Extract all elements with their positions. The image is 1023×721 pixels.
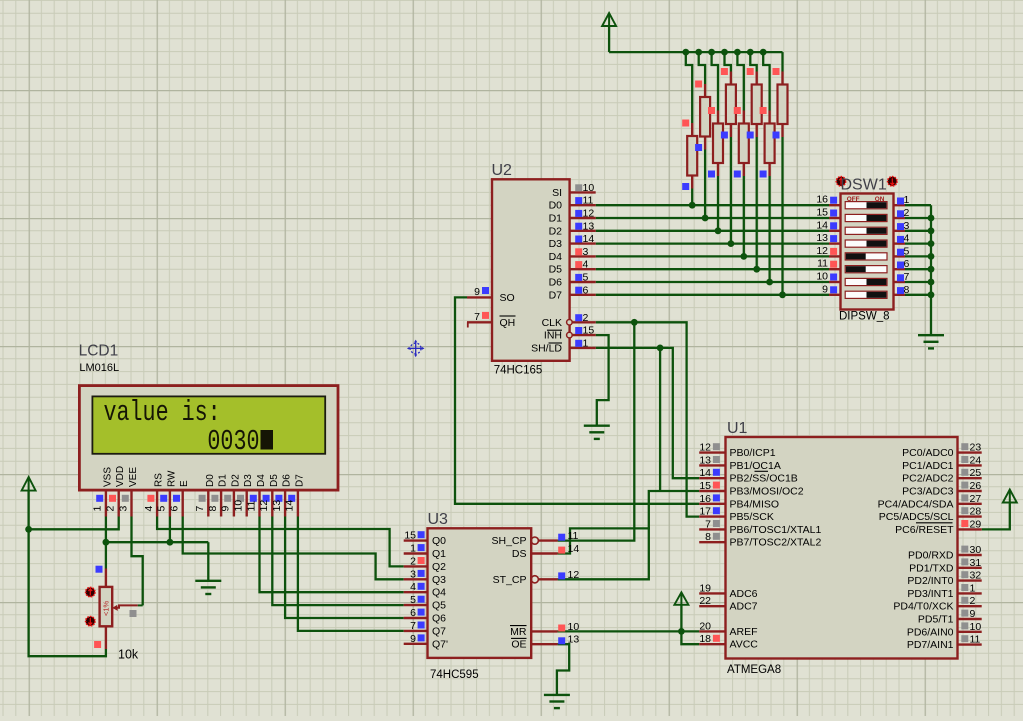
junction resistor R2 on bus line D1 (702, 215, 709, 222)
DSW1 right pin 6 (894, 268, 906, 270)
svg-text:12: 12 (568, 569, 580, 581)
svg-text:7: 7 (410, 620, 416, 632)
svg-text:6: 6 (169, 506, 181, 512)
junction resistor R4 on bus line D3 (728, 240, 735, 247)
U1 pin 25 (958, 477, 982, 479)
U2 pin 15 (INH) (570, 334, 596, 336)
junction ground rail row 3 (928, 227, 935, 234)
junction resistor R3 on bus line D2 (715, 227, 722, 234)
svg-text:PC0/ADC0: PC0/ADC0 (902, 447, 954, 459)
wire: resistor R8 bottom to bus D7 (781, 137, 783, 295)
svg-text:DIPSW_8: DIPSW_8 (839, 311, 890, 323)
wire: resistor R6 bottom to bus D5 (756, 137, 758, 269)
svg-text:27: 27 (970, 493, 982, 505)
wire: resistor R1 bottom to bus D0 (691, 189, 693, 206)
resistor R6 (756, 72, 758, 85)
wire: net D7 from U2 to DSW1 (596, 294, 829, 296)
IC U3 74HC595 body (428, 528, 532, 658)
U1 pin 15 (699, 490, 725, 492)
svg-text:1: 1 (970, 582, 976, 594)
ground (below LCD) (195, 580, 221, 582)
U3 pin 5 (Q5) (404, 604, 428, 606)
wire: U3.DS jog (558, 528, 650, 553)
origin marker (407, 340, 425, 358)
svg-text:D1: D1 (549, 213, 563, 225)
svg-text:ADC7: ADC7 (730, 601, 758, 613)
junction resistor R1 on bus line D0 (689, 202, 696, 209)
DSW1 left pin 12 (829, 255, 841, 257)
wire: net D3 from U2 to DSW1 (596, 242, 829, 244)
svg-text:15: 15 (816, 207, 828, 219)
LCD1 pin 10 (D3) (245, 490, 247, 516)
svg-text:PB0/ICP1: PB0/ICP1 (730, 447, 776, 459)
wire: branch to U1.AVCC (681, 631, 699, 644)
svg-text:D2: D2 (230, 474, 241, 487)
wire: U2.INH to ground (596, 335, 609, 426)
IC U2 74HC165 body (492, 179, 570, 360)
svg-text:14: 14 (284, 500, 296, 512)
svg-text:Q0: Q0 (432, 535, 446, 547)
svg-text:D4: D4 (256, 474, 267, 487)
svg-text:<1%: <1% (102, 600, 111, 616)
svg-text:9: 9 (970, 608, 976, 620)
svg-text:VEE: VEE (128, 467, 139, 487)
svg-text:Q1: Q1 (432, 548, 446, 560)
svg-text:SH_CP: SH_CP (491, 535, 526, 547)
U2 pin 3 (D4) (570, 255, 596, 257)
svg-text:2: 2 (583, 312, 589, 324)
wire: DSW1 pin 6 to ground rail (905, 268, 931, 270)
U2 pin 6 (D7) (570, 294, 596, 296)
wire: LCD RS to U3.Q2 (157, 517, 404, 567)
svg-text:11: 11 (568, 530, 579, 542)
junction on rail, column 5 (734, 49, 741, 56)
LCD1 pin 11 (D4) (258, 490, 260, 516)
DSW1 left pin 9 (829, 294, 841, 296)
svg-text:5: 5 (904, 245, 910, 257)
wire: rail drop to resistor R2 (699, 52, 705, 84)
DSW1 right pin 5 (894, 255, 906, 257)
U2 pin 2 (CLK) (570, 321, 596, 323)
IC U1 ATMEGA8 body (726, 437, 958, 659)
svg-text:2: 2 (105, 506, 117, 512)
DSW1 switch element 6 (slot) (845, 266, 887, 273)
svg-text:1: 1 (583, 337, 589, 349)
wire: resistor R5 bottom to bus D4 (743, 176, 745, 256)
wire: U3.ST_CP up to U1.PB3 row (558, 491, 700, 579)
svg-text:1: 1 (92, 506, 104, 512)
svg-text:10: 10 (568, 621, 580, 633)
DSW1 switch element 7 (slot) (845, 278, 887, 285)
pot wiper arrow (112, 605, 118, 611)
U1 pin 2 (958, 605, 982, 607)
DSW1 right pin 2 (894, 217, 906, 219)
wire: ground line down to symbol (207, 542, 209, 581)
U2 pin 1 (SH/LD) (570, 347, 596, 349)
wire: VCC line down-right to pot bottom (29, 491, 106, 657)
svg-text:6: 6 (583, 284, 589, 296)
svg-text:7: 7 (904, 271, 910, 283)
DSW1 left pin 14 (829, 230, 841, 232)
wire: U3.OE to ground (557, 644, 569, 695)
power symbol VCC (near U1 AVCC) (674, 592, 688, 605)
svg-text:12: 12 (258, 500, 270, 512)
svg-text:6: 6 (904, 258, 910, 270)
wire: SH/LD branch down to MOSI row (659, 348, 661, 491)
U3 pin 12 (ST_CP) (539, 578, 558, 580)
junction ground rail row 8 (928, 291, 935, 298)
DSW1 switch element 8 (slot) (845, 291, 887, 298)
svg-text:3: 3 (410, 568, 416, 580)
svg-text:25: 25 (970, 467, 982, 479)
resistor R7 (768, 111, 770, 124)
svg-text:PC3/ADC3: PC3/ADC3 (902, 486, 954, 498)
svg-text:SH/LD: SH/LD (531, 342, 562, 354)
U3 pin 4 (Q4) (404, 591, 428, 593)
LCD1 LM016L body (79, 386, 338, 491)
svg-text:AVCC: AVCC (730, 639, 759, 651)
svg-text:2: 2 (410, 555, 416, 567)
svg-text:OE: OE (511, 639, 526, 651)
LCD1 pin 13 (D6) (284, 490, 286, 516)
wire: resistor R4 bottom to bus D3 (730, 137, 732, 244)
junction on rail, column 6 (747, 49, 754, 56)
svg-text:3: 3 (904, 220, 910, 232)
svg-text:PB7/TOSC2/XTAL2: PB7/TOSC2/XTAL2 (730, 537, 822, 549)
svg-text:PB3/MOSI/OC2: PB3/MOSI/OC2 (730, 486, 804, 498)
U3 pin 13 (OE) (531, 643, 557, 645)
resistor R2 (704, 84, 706, 97)
svg-text:Q3: Q3 (432, 574, 446, 586)
svg-text:E: E (179, 480, 190, 487)
svg-text:12: 12 (699, 442, 711, 454)
wire: DSW1 pin 2 to ground rail (905, 217, 931, 219)
U2 pin 11 (D0) (570, 204, 596, 206)
svg-text:16: 16 (699, 493, 711, 505)
svg-text:SI: SI (552, 187, 562, 199)
LCD1 pin 12 (D5) (271, 490, 273, 516)
wire: rail drop to resistor R6 (750, 52, 756, 71)
junction ground rail row 2 (928, 215, 935, 222)
wire: resistor R7 bottom to bus D6 (768, 176, 770, 282)
U1 pin 27 (958, 503, 982, 505)
wire: U3.MR to U1.AREF (558, 630, 700, 632)
svg-text:PD4/T0/XCK: PD4/T0/XCK (893, 601, 953, 613)
wire: LCD ground line horizontal (106, 541, 208, 543)
svg-text:26: 26 (970, 480, 982, 492)
svg-text:QH: QH (500, 317, 516, 329)
svg-text:PB6/TOSC1/XTAL1: PB6/TOSC1/XTAL1 (730, 524, 822, 536)
svg-text:12: 12 (583, 208, 595, 220)
U3 pin 15 (Q0) (404, 539, 428, 541)
U1 pin 29 (958, 528, 982, 530)
wire: DSW1 pin 8 to ground rail (905, 294, 931, 296)
DSW1 right pin 4 (894, 242, 906, 244)
svg-text:74HC165: 74HC165 (494, 365, 543, 377)
U2 pin 5 (D6) (570, 281, 596, 283)
U3 pin 1 (Q1) (404, 552, 428, 554)
DSW1 screw circle left (836, 177, 845, 186)
wire: DSW ground rail vertical (930, 205, 932, 335)
svg-text:value is:: value is: (104, 396, 221, 429)
U3 pin 2 (Q2) (404, 565, 428, 567)
wire: resistor R2 bottom to bus D1 (704, 150, 706, 219)
junction ground rail row 7 (928, 279, 935, 286)
svg-text:16: 16 (816, 194, 828, 206)
svg-text:74HC595: 74HC595 (430, 669, 479, 681)
pot adjust circle down (86, 617, 95, 626)
U1 pin 7 (699, 528, 725, 530)
junction VSS/pot-top (103, 539, 110, 546)
wire: rail drop to resistor R7 (763, 52, 769, 110)
svg-text:9: 9 (474, 286, 480, 298)
svg-text:13: 13 (816, 232, 828, 244)
svg-text:D7: D7 (294, 474, 305, 487)
DSW1 switch element 5 (slot) (845, 253, 887, 260)
svg-text:PC2/ADC2: PC2/ADC2 (902, 473, 954, 485)
DSW1 switch element 1 (slot) (845, 202, 887, 209)
LCD1 pin 2 (VDD) (117, 490, 119, 516)
svg-text:20: 20 (699, 620, 711, 632)
wire: rail drop to resistor R3 (712, 52, 718, 110)
junction resistor R7 on bus line D6 (766, 279, 773, 286)
svg-text:VSS: VSS (102, 467, 113, 487)
U2 pin 13 (D2) (570, 230, 596, 232)
svg-text:6: 6 (410, 607, 416, 619)
svg-text:PD2/INT0: PD2/INT0 (907, 575, 953, 587)
wire: net D0 from U2 to DSW1 (596, 204, 829, 206)
junction resistor R6 on bus line D5 (753, 266, 760, 273)
DSW1 right pin 1 (894, 204, 906, 206)
junction on rail, column 2 (695, 49, 702, 56)
wire: U2.SO to U1.PB4/MISO (455, 297, 699, 503)
svg-text:30: 30 (970, 544, 982, 556)
resistor R5 (743, 111, 745, 124)
U2 QH pin-end tick (467, 322, 469, 327)
wire: LCD D7 to U3.Q7 (298, 517, 404, 631)
svg-text:DSW1: DSW1 (841, 176, 887, 193)
svg-text:U2: U2 (492, 162, 513, 179)
pot adjust circle up (86, 587, 95, 596)
svg-text:23: 23 (970, 442, 982, 454)
svg-text:32: 32 (970, 570, 982, 582)
U3 pin 10 (MR) (531, 630, 557, 632)
U1 pin 30 (958, 554, 982, 556)
wire: DSW1 pin 3 to ground rail (905, 230, 931, 232)
svg-text:ATMEGA8: ATMEGA8 (727, 664, 781, 676)
overline RESET (U1 pin29 name) (916, 522, 953, 524)
svg-text:Q7': Q7' (432, 638, 448, 650)
svg-text:11: 11 (970, 634, 981, 646)
LCD1 pin 4 (RS) (156, 490, 158, 516)
svg-text:DS: DS (512, 548, 527, 560)
DSW1 right pin 8 (894, 294, 906, 296)
svg-text:8: 8 (904, 284, 910, 296)
LCD1 pin 3 (VEE) (130, 490, 132, 516)
DSW1 left pin 11 (829, 268, 841, 270)
DSW1 switch element 2 (slot) (845, 214, 887, 221)
U2 pin 12 (D1) (570, 217, 596, 219)
svg-text:PB5/SCK: PB5/SCK (730, 511, 774, 523)
LCD cursor block (261, 430, 274, 450)
svg-text:5: 5 (410, 594, 416, 606)
U1 pin 13 (699, 464, 725, 466)
DSW1 left pin 16 (829, 204, 841, 206)
svg-text:PC4/ADC4/SDA: PC4/ADC4/SDA (878, 498, 954, 510)
svg-text:4: 4 (904, 233, 910, 245)
svg-text:7: 7 (474, 311, 480, 323)
svg-text:11: 11 (817, 258, 828, 270)
U1 pin 12 (699, 451, 725, 453)
wire: VCC arrow stem (AVCC) (680, 605, 682, 632)
ground (below U3) (544, 694, 570, 696)
junction node SCK branch (631, 319, 638, 326)
svg-text:MR: MR (510, 626, 527, 638)
wire: LCD VSS down to gnd line (105, 517, 107, 543)
junction node AREF/AVCC (678, 628, 685, 635)
DSW1 left pin 10 (829, 281, 841, 283)
ground (below U2) (584, 425, 610, 427)
svg-text:11: 11 (583, 195, 594, 207)
U3 pin 9 (Q7') (404, 643, 428, 645)
LCD screen (92, 396, 325, 453)
svg-text:Q2: Q2 (432, 561, 446, 573)
resistor R3 (717, 111, 719, 124)
junction on rail, column 7 (760, 49, 767, 56)
svg-text:ST_CP: ST_CP (493, 574, 527, 586)
svg-text:10: 10 (583, 182, 595, 194)
svg-text:24: 24 (970, 454, 982, 466)
wire: net D6 from U2 to DSW1 (596, 281, 829, 283)
svg-text:4: 4 (410, 581, 416, 593)
U1 pin 18 (699, 643, 725, 645)
svg-text:31: 31 (970, 557, 982, 569)
LCD1 pin 9 (D2) (233, 490, 235, 516)
U1 pin 20 (699, 630, 725, 632)
svg-text:7: 7 (705, 518, 711, 530)
U1 pin 1 (958, 592, 982, 594)
U2 pin 7 (QH) (467, 321, 492, 323)
junction resistor R5 on bus line D4 (740, 253, 747, 260)
wire: resistor R3 bottom to bus D2 (717, 176, 719, 231)
svg-text:15: 15 (583, 325, 595, 337)
DSW1 left pin 13 (829, 242, 841, 244)
junction on rail, column 3 (708, 49, 715, 56)
svg-text:2: 2 (904, 207, 910, 219)
wire: LCD E to U3.Q3 (183, 517, 404, 580)
svg-text:PB1/OC1A: PB1/OC1A (730, 460, 781, 472)
wire: LCD D6 to U3.Q6 (285, 517, 404, 619)
svg-text:5: 5 (583, 272, 589, 284)
svg-text:8: 8 (705, 531, 711, 543)
U2 pin 14 (D3) (570, 242, 596, 244)
junction on rail, column 4 (721, 49, 728, 56)
svg-text:D5: D5 (549, 264, 563, 276)
svg-text:28: 28 (970, 506, 982, 518)
svg-text:3: 3 (117, 506, 129, 512)
svg-text:14: 14 (583, 233, 595, 245)
wire: top resistor rail horizontal (609, 51, 782, 53)
svg-text:13: 13 (271, 500, 283, 512)
wire: net D5 from U2 to DSW1 (596, 268, 829, 270)
wire: net D4 from U2 to DSW1 (596, 255, 829, 257)
svg-text:D6: D6 (549, 277, 563, 289)
wire: DSW1 pin 5 to ground rail (905, 255, 931, 257)
svg-text:9: 9 (410, 633, 416, 645)
U1 pin 26 (958, 490, 982, 492)
svg-text:ADC6: ADC6 (730, 588, 758, 600)
junction ground rail row 5 (928, 253, 935, 260)
U1 pin 11 (958, 643, 982, 645)
U1 pin 24 (958, 464, 982, 466)
resistor R8 (781, 72, 783, 85)
svg-text:PB4/MISO: PB4/MISO (730, 498, 780, 510)
svg-text:4: 4 (143, 506, 155, 512)
svg-text:4: 4 (583, 259, 589, 271)
svg-text:14: 14 (816, 219, 828, 231)
svg-text:CLK: CLK (542, 317, 562, 329)
junction ground rail row 4 (928, 240, 935, 247)
svg-text:PD1/TXD: PD1/TXD (909, 562, 954, 574)
U1 pin 14 (699, 477, 725, 479)
svg-text:14: 14 (699, 467, 711, 479)
svg-text:PC6/RESET: PC6/RESET (895, 524, 954, 536)
svg-text:15: 15 (699, 480, 711, 492)
svg-text:18: 18 (699, 633, 711, 645)
svg-text:10: 10 (233, 500, 245, 512)
U1 pin 16 (699, 503, 725, 505)
potentiometer RV1 10k body (105, 569, 107, 587)
svg-text:1: 1 (904, 194, 910, 206)
wire: SCK branch to U3.SH_CP (558, 322, 635, 540)
svg-text:D6: D6 (282, 474, 293, 487)
wire: rail drop to resistor R1 (686, 52, 692, 123)
overline SS (U1 pin14 name) (755, 470, 769, 472)
svg-text:LCD1: LCD1 (79, 342, 119, 359)
wire: VCC arrow stem down (608, 26, 610, 52)
svg-text:LM016L: LM016L (79, 362, 119, 374)
svg-text:22: 22 (699, 595, 711, 607)
U3 pin 6 (Q6) (404, 617, 428, 619)
junction on rail, column 1 (682, 49, 689, 56)
U3 pin 7 (Q7) (404, 630, 428, 632)
wire: net D1 from U2 to DSW1 (596, 217, 829, 219)
svg-text:10: 10 (970, 621, 982, 633)
svg-text:PC1/ADC1: PC1/ADC1 (902, 460, 954, 472)
svg-text:10k: 10k (118, 648, 139, 662)
svg-text:13: 13 (568, 634, 580, 646)
wire: U1.PC6/RESET to VCC arrow (982, 503, 1010, 530)
svg-text:1: 1 (410, 543, 416, 555)
DSW1 screw circle right (888, 177, 897, 186)
wire: VCC to LCD VDD (29, 517, 119, 530)
svg-text:Q5: Q5 (432, 600, 446, 612)
svg-text:13: 13 (699, 454, 711, 466)
svg-text:INH: INH (544, 330, 562, 342)
switch DSW1 DIPSW_8 body (841, 194, 894, 310)
wire: LCD RW down to gnd line (169, 517, 171, 543)
svg-text:U3: U3 (428, 511, 449, 528)
svg-text:D0: D0 (205, 474, 216, 487)
wire: LCD VEE to pot wiper (132, 517, 143, 606)
LCD1 pin 6 (E) (181, 490, 183, 516)
svg-text:SO: SO (500, 292, 515, 304)
svg-text:PD6/AIN0: PD6/AIN0 (907, 626, 954, 638)
svg-text:15: 15 (404, 530, 416, 542)
LCD1 pin 7 (D0) (207, 490, 209, 516)
svg-text:D7: D7 (549, 289, 563, 301)
svg-text:D3: D3 (549, 238, 563, 250)
